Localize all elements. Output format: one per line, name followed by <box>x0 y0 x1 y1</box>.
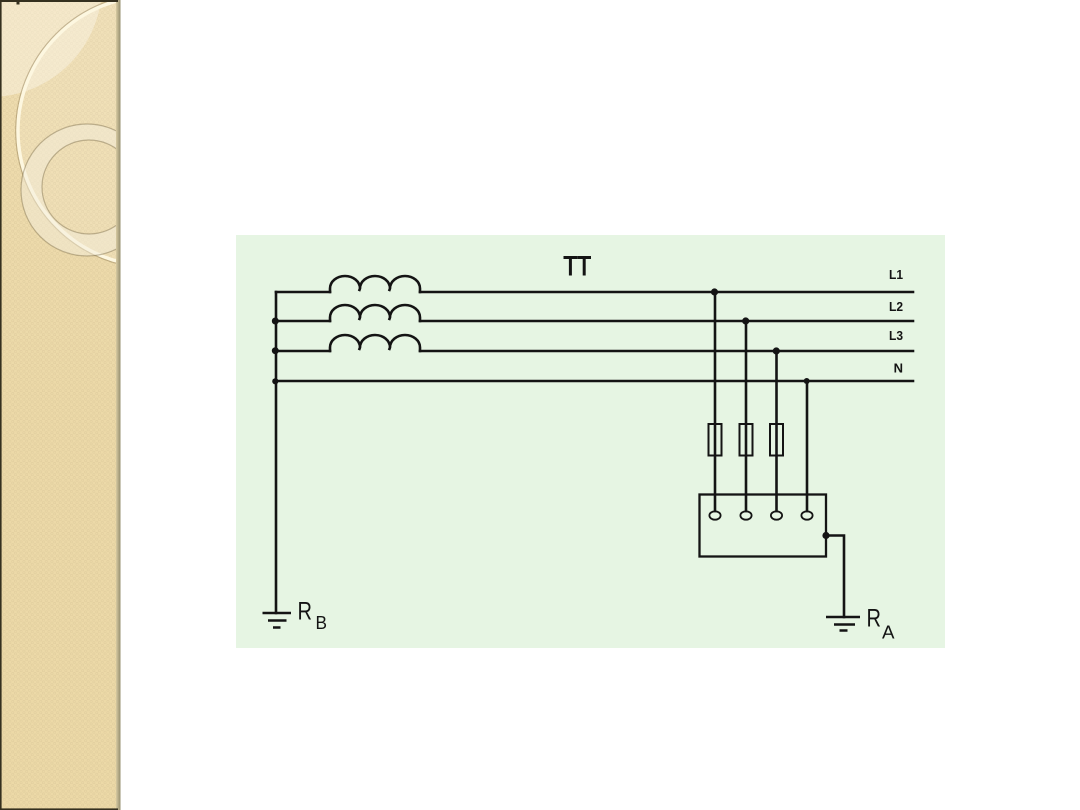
green panel background <box>236 235 945 648</box>
svg-text:B: B <box>316 613 328 633</box>
terminal T3 <box>771 511 782 519</box>
junction dot L2 left <box>272 318 279 325</box>
label RB <box>298 598 328 634</box>
label RA <box>867 605 895 643</box>
wire earth RA connection <box>826 536 844 618</box>
fuse F3 <box>770 424 783 456</box>
junction dot L2 tap <box>742 317 749 324</box>
wire L2 left segment <box>276 320 330 323</box>
svg-text:R: R <box>867 605 882 633</box>
svg-text:L2: L2 <box>889 299 903 314</box>
inductor coil L2 <box>330 305 420 321</box>
wire N <box>276 380 913 383</box>
junction dot box output <box>822 532 829 539</box>
wire drop L1 <box>714 292 717 511</box>
svg-text:N: N <box>894 361 903 376</box>
ground symbol RA <box>826 617 860 631</box>
inductor coil L1 <box>330 276 420 292</box>
sidebar decorative panel <box>0 0 290 810</box>
inductor coil L3 <box>330 335 420 351</box>
terminal T2 <box>740 511 751 519</box>
junction dot L3 tap <box>773 347 780 354</box>
junction dot L3 left <box>272 347 279 354</box>
wire L3 right segment <box>420 350 913 353</box>
svg-text:L1: L1 <box>889 267 903 282</box>
wire drop L2 <box>745 321 748 511</box>
terminal T1 <box>709 511 720 519</box>
fuse F2 <box>740 424 753 456</box>
ground symbol RB <box>263 613 292 628</box>
svg-text:R: R <box>298 598 313 626</box>
wire drop L3 <box>775 351 778 511</box>
svg-text:A: A <box>882 623 895 643</box>
svg-text:L3: L3 <box>889 328 903 343</box>
label TT <box>564 258 592 276</box>
junction dot N left <box>272 378 278 384</box>
wire L2 right segment <box>420 320 913 323</box>
wire drop N <box>806 381 809 511</box>
junction dot L1 tap <box>711 288 718 295</box>
wire L1 right segment <box>420 291 913 294</box>
consumer unit box <box>700 495 827 557</box>
terminal T4 <box>801 511 812 519</box>
junction dot N tap <box>804 378 810 384</box>
fuse F1 <box>709 424 722 456</box>
wire left vertical bus <box>275 292 278 613</box>
wire L1 left segment <box>276 291 330 294</box>
wire L3 left segment <box>276 350 330 353</box>
